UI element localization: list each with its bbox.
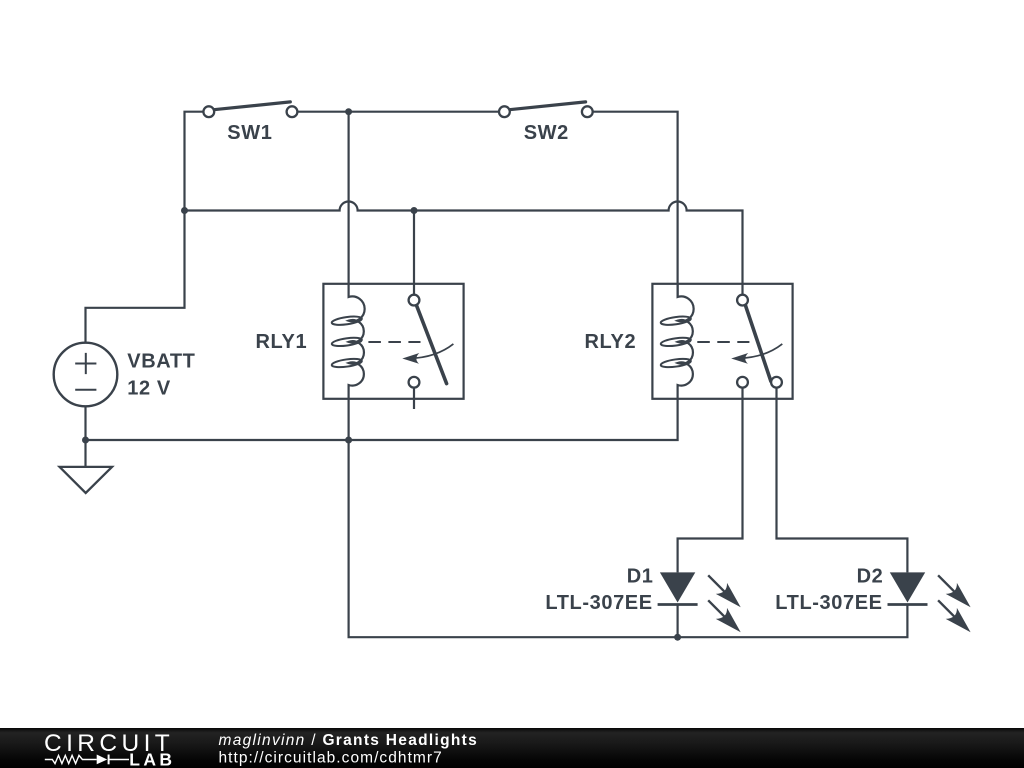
relay RLY1 [323, 284, 463, 399]
svg-text:RLY1: RLY1 [256, 331, 308, 353]
relay RLY2 [652, 284, 792, 399]
node: junction dot RLY1 common [411, 207, 418, 214]
svg-text:http://circuitlab.com/cdhtmr7: http://circuitlab.com/cdhtmr7 [219, 750, 443, 767]
voltage source VBATT [54, 343, 118, 407]
svg-text:LAB: LAB [129, 749, 175, 768]
wire: long return down and across to LED cathodes [349, 440, 908, 637]
wire: bus down to RLY1 common pin [413, 211, 415, 295]
wire: bottom bus from battery to RLY2 coil return [86, 399, 678, 440]
svg-text:SW1: SW1 [227, 122, 272, 144]
footer bar [0, 728, 1024, 768]
svg-text:SW2: SW2 [524, 122, 569, 144]
node: junction dot D1 cathode [674, 634, 681, 641]
switch SW2 [499, 102, 593, 117]
wire: middle bus with hops over coil wires, to RLY2 common [185, 202, 743, 295]
node: junction dot SW1 output [345, 108, 352, 115]
wire: junction down to RLY1 coil [348, 112, 350, 284]
wire: RLY1 normally-open stub [413, 388, 415, 409]
wire: battery negative down through ground node [84, 406, 86, 467]
wire: RLY2 contact to LED D2 anode [777, 388, 908, 572]
switch SW1 [203, 102, 297, 117]
node: junction dot left bus [181, 207, 188, 214]
wire: SW1 output to SW2 input [297, 111, 499, 113]
svg-text:D2: D2 [857, 566, 884, 588]
svg-text:LTL-307EE: LTL-307EE [775, 592, 882, 614]
svg-text:RLY2: RLY2 [585, 331, 637, 353]
wire: RLY2 contact to LED D1 anode [678, 388, 743, 572]
LED D2 [888, 572, 971, 632]
svg-text:D1: D1 [627, 566, 654, 588]
wire: RLY1 coil return to bottom bus [348, 399, 350, 440]
svg-text:LTL-307EE: LTL-307EE [545, 592, 652, 614]
node: junction dot battery negative [82, 437, 89, 444]
svg-text:12 V: 12 V [127, 378, 171, 400]
svg-text:VBATT: VBATT [127, 351, 195, 373]
CircuitLab logo resistor-diode glyph [45, 755, 97, 763]
wire: D1 cathode to bottom bus [676, 605, 678, 638]
wire: battery positive to top-left corner run [86, 112, 204, 343]
svg-text:maglinvinn / Grants Headlights: maglinvinn / Grants Headlights [219, 732, 479, 749]
node: junction dot 4-way [345, 437, 352, 444]
LED D1 [658, 572, 741, 632]
ground [60, 467, 112, 493]
wire: SW2 output down to RLY2 coil [592, 112, 677, 297]
